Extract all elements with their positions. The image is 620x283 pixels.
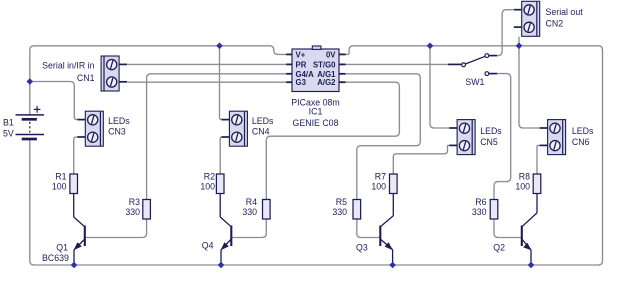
wire IC A/G2 to R4	[266, 82, 399, 199]
resistor R1 body	[70, 174, 78, 194]
transistor Q2	[493, 194, 537, 266]
SW1 common contact	[462, 63, 466, 67]
svg-text:LEDs: LEDs	[108, 116, 130, 126]
wire IC ST/G0 to SW1 common	[346, 63, 460, 65]
svg-text:LEDs: LEDs	[252, 116, 274, 126]
wire CN3 pin2 to R1	[74, 137, 79, 174]
svg-text:A/G2: A/G2	[317, 78, 336, 87]
wire 0V net from IC 0V pin up over top right rail down right side and bottom rail to battery	[30, 46, 603, 265]
svg-text:R4: R4	[246, 197, 257, 207]
svg-text:100: 100	[371, 182, 386, 192]
node junction V+ battery branch	[27, 78, 34, 85]
svg-text:B1: B1	[3, 117, 14, 127]
svg-text:BC639: BC639	[42, 253, 69, 263]
battery B1 plus sign	[34, 108, 41, 110]
SW1 lever	[465, 56, 485, 64]
resistor R5	[332, 197, 360, 219]
node junction Q3 emitter on 0V rail	[389, 262, 396, 269]
transistor Q3 collector lead	[392, 194, 394, 216]
wire 0V rail drop to CN6 top pin and stub up to CN2	[519, 37, 540, 128]
resistor R1	[52, 172, 78, 194]
svg-text:R6: R6	[475, 197, 486, 207]
connector CN6	[540, 120, 594, 155]
node junction V+ rail CN4	[216, 43, 223, 50]
svg-text:R7: R7	[375, 172, 386, 182]
resistor R8 body	[533, 174, 541, 194]
svg-text:CN2: CN2	[546, 19, 564, 29]
IC1 pin G3	[286, 81, 292, 83]
svg-text:Serial in/IR in: Serial in/IR in	[42, 61, 94, 71]
svg-text:R1: R1	[55, 172, 66, 182]
svg-text:100: 100	[52, 182, 67, 192]
IC1 pin V+	[286, 53, 292, 55]
svg-text:LEDs: LEDs	[480, 126, 502, 136]
resistor R6 body	[490, 200, 498, 220]
connector CN3 terminal block	[77, 111, 103, 146]
svg-text:R5: R5	[336, 197, 347, 207]
SW1 top throw contact	[485, 54, 489, 58]
connector CN4	[222, 111, 275, 146]
connector CN4 terminal block	[222, 111, 248, 146]
transistor Q1 base bar	[84, 226, 86, 247]
svg-text:330: 330	[472, 207, 487, 217]
transistor Q3	[356, 194, 393, 266]
wire R6 to Q2 base	[494, 219, 522, 238]
connector CN1 terminal block	[101, 56, 127, 91]
connector CN2 terminal block	[514, 1, 540, 36]
wire IC G4/A to R3	[147, 74, 287, 200]
transistor Q2 base bar	[521, 226, 523, 247]
svg-text:5V: 5V	[3, 128, 14, 138]
svg-text:330: 330	[332, 207, 347, 217]
transistor Q2 emitter lead	[522, 239, 531, 250]
svg-text:R2: R2	[204, 172, 215, 182]
battery B1 cell2 long plate	[16, 134, 45, 136]
connector CN3	[77, 111, 130, 146]
IC1 pin A/G1	[339, 73, 346, 75]
resistor R4	[242, 197, 270, 219]
IC1 pin 0V	[339, 53, 346, 55]
wire CN5 pin2 to R7	[393, 145, 449, 174]
svg-text:CN6: CN6	[572, 137, 590, 147]
IC1 pin PR	[286, 63, 292, 65]
transistor Q4 collector lead	[219, 194, 221, 218]
node junction Q1 emitter on 0V rail	[71, 262, 78, 269]
svg-text:CN4: CN4	[252, 127, 270, 137]
connector CN1	[42, 56, 127, 91]
wire IC A/G1 to R5	[346, 74, 421, 200]
svg-text:0V: 0V	[326, 50, 336, 59]
IC1 pin G4/A	[286, 73, 292, 75]
wire battery plus branch to CN3 top pin	[30, 82, 79, 120]
wire 0V rail drop to CN5 top pin	[430, 46, 449, 128]
connector CN5 terminal block	[449, 120, 475, 155]
transistor Q1 collector lead	[73, 194, 75, 218]
connector CN5	[449, 120, 502, 155]
transistor Q1	[42, 194, 85, 266]
wire R3 to Q1 base	[85, 219, 147, 238]
wire CN6 pin2 to R8	[537, 145, 540, 174]
node junction Q4 emitter on 0V rail	[218, 262, 225, 269]
svg-text:LEDs: LEDs	[572, 126, 594, 136]
battery B1 dashed link	[29, 122, 31, 133]
transistor Q1 emitter arrow	[74, 242, 82, 250]
svg-text:R3: R3	[129, 197, 140, 207]
IC U1 PICaxe 08m	[286, 46, 345, 128]
svg-text:Q3: Q3	[356, 243, 368, 253]
connector CN2	[514, 1, 583, 36]
transistor Q2 emitter arrow	[523, 243, 531, 250]
transistor Q4	[202, 194, 232, 266]
node junction 0V rail CN6	[516, 43, 523, 50]
resistor R2 body	[216, 174, 224, 194]
transistor Q4 emitter lead	[221, 239, 231, 250]
node junction 0V rail CN5	[427, 43, 434, 50]
svg-text:GENIE C08: GENIE C08	[293, 118, 339, 128]
wire V+ rail from battery to IC V+ pin	[30, 46, 292, 115]
svg-text:Q2: Q2	[493, 243, 505, 253]
svg-text:330: 330	[242, 207, 257, 217]
resistor R8	[515, 172, 540, 194]
resistor R3	[125, 197, 150, 219]
resistor R7 body	[390, 174, 398, 194]
svg-text:ST/G0: ST/G0	[313, 60, 336, 69]
wire CN4 pin2 to R2	[220, 137, 224, 174]
IC1 notch	[312, 46, 321, 49]
IC1 pin A/G2	[339, 81, 346, 83]
resistor R2	[200, 172, 224, 194]
node junction Q2 emitter on 0V rail	[528, 262, 535, 269]
wire CN1 pin1 to IC PR	[127, 63, 286, 65]
resistor R3 body	[143, 200, 151, 220]
transistor Q1 emitter lead	[74, 239, 85, 250]
svg-text:100: 100	[515, 182, 530, 192]
svg-text:V+: V+	[296, 50, 306, 59]
resistor R4 body	[263, 200, 271, 220]
transistor Q4 base bar	[230, 226, 232, 247]
resistor R6	[472, 197, 498, 219]
svg-text:330: 330	[125, 207, 140, 217]
svg-text:G3: G3	[296, 78, 307, 87]
wire V+ rail drop to CN4 top pin	[220, 46, 225, 120]
svg-text:100: 100	[200, 182, 215, 192]
svg-text:Serial out: Serial out	[546, 7, 584, 17]
connector CN6 terminal block	[540, 120, 566, 155]
IC1 pin ST/G0	[339, 63, 346, 65]
SW1 bottom throw contact	[485, 72, 489, 76]
wire CN1 pin2 to IC G3	[127, 81, 286, 83]
SW1 common lead	[448, 63, 462, 65]
battery B1 cell1 long plate	[16, 114, 45, 116]
svg-text:CN3: CN3	[108, 127, 126, 137]
transistor Q3 base bar	[379, 226, 381, 247]
wire SW1 lower contact to R6	[489, 74, 511, 200]
svg-text:SW1: SW1	[465, 77, 484, 87]
resistor R5 body	[353, 200, 361, 220]
svg-text:Q4: Q4	[202, 241, 214, 251]
wire R5 to Q3 base	[357, 219, 381, 238]
wire SW1 top contact to CN2 pin1	[489, 10, 514, 56]
svg-text:IC1: IC1	[309, 107, 323, 117]
switch SW1	[448, 54, 497, 87]
IC1 body	[292, 49, 339, 92]
svg-text:CN5: CN5	[480, 137, 498, 147]
wire R4 to Q4 base	[231, 219, 266, 238]
transistor Q3 emitter arrow	[385, 242, 393, 250]
transistor Q3 emitter lead	[380, 239, 392, 250]
transistor Q4 emitter arrow	[221, 242, 229, 250]
battery B1 cell1 short plate	[22, 118, 37, 121]
battery B1 cell2 short plate	[22, 138, 37, 141]
svg-text:CN1: CN1	[77, 73, 95, 83]
svg-text:R8: R8	[519, 172, 530, 182]
svg-text:Q1: Q1	[56, 242, 68, 252]
battery B1	[3, 106, 44, 139]
resistor R7	[371, 172, 397, 194]
svg-text:PR: PR	[296, 60, 307, 69]
transistor Q2 collector lead	[536, 194, 538, 213]
